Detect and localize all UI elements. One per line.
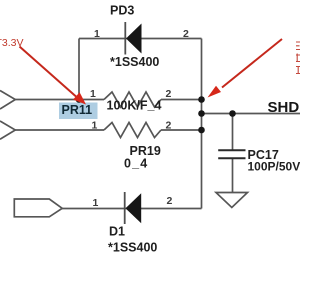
svg-text:SHDN: SHDN bbox=[268, 99, 301, 116]
svg-text:100K/F_4: 100K/F_4 bbox=[107, 99, 162, 113]
svg-text:*1SS400: *1SS400 bbox=[108, 241, 157, 255]
svg-text:PD3: PD3 bbox=[110, 4, 134, 18]
svg-text:2: 2 bbox=[166, 88, 172, 100]
svg-text:2: 2 bbox=[167, 195, 173, 207]
svg-text:D1: D1 bbox=[109, 225, 125, 239]
svg-text:100P/50V: 100P/50V bbox=[248, 160, 301, 174]
svg-text:0_4: 0_4 bbox=[124, 157, 148, 171]
svg-text:1: 1 bbox=[93, 197, 99, 209]
svg-text:T3.3V: T3.3V bbox=[0, 37, 24, 49]
svg-text:*1SS400: *1SS400 bbox=[110, 55, 159, 69]
svg-text:2: 2 bbox=[183, 28, 189, 40]
svg-text:2: 2 bbox=[166, 120, 172, 132]
svg-text:1: 1 bbox=[90, 88, 96, 100]
svg-text:1: 1 bbox=[92, 120, 98, 132]
svg-text:PR11: PR11 bbox=[62, 103, 93, 117]
svg-text:1: 1 bbox=[94, 28, 100, 40]
